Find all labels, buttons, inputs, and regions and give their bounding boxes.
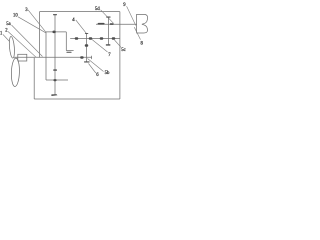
leader for label 9 [127,6,136,25]
leader for label 1 [3,35,10,42]
leader for label 2 [8,32,36,58]
svg-text:4: 4 [72,18,75,23]
step shaft vertical [65,32,67,51]
leader for label 4 [76,20,86,33]
svg-text:10: 10 [13,14,18,19]
leader for label 5b [88,59,104,72]
svg-text:9: 9 [123,3,126,8]
bevel gear left on output shaft [98,23,105,25]
svg-text:7: 7 [108,53,111,58]
svg-text:8: 8 [141,42,144,47]
shaft V1 top cap [85,32,88,35]
svg-text:1: 1 [0,31,3,36]
fan shaft horizontal [14,56,92,58]
shaft B bottom bevel gear [51,94,57,96]
leader for label 8 [134,27,140,39]
cross shaft at y32 [46,31,66,33]
svg-text:3: 3 [25,8,28,13]
housing box right edge [119,12,121,99]
gear blob on shaft V1 [85,44,88,47]
gear train horizontal shaft [70,38,120,40]
fan shaft end tick [91,56,93,59]
gear blob g2 on gear train shaft [89,37,92,40]
gear on shaft B at y32 [53,31,56,33]
leader for label 5a [12,25,43,57]
leader for label 7 [92,40,108,53]
shaft B top cap bearing [53,14,57,15]
fan lower blade 1 [11,58,20,87]
gear blob g3 on gear train shaft [100,37,103,40]
housing box top edge [40,11,120,13]
svg-text:2: 2 [5,29,8,34]
bevel shaft V1 [86,33,88,61]
leader for label 5c [115,40,122,47]
lower junction shaft horizontal [46,79,68,81]
shaft V2 bottom bar [106,44,111,45]
svg-text:5d: 5d [95,7,100,12]
vertical shaft A [45,32,47,80]
fan upper blade 1 [9,36,16,58]
leader for label 3 [28,10,46,33]
bevel shaft V2 [107,17,109,45]
shaft V1 bottom bar [84,61,90,62]
leader for label 6 [89,64,96,74]
output shaft to roller [96,23,137,25]
leader for label 10 [18,17,46,33]
housing box left lower edge [33,58,35,99]
step shaft horizontal [66,50,73,52]
gear bar on shaft B at y70 [53,69,57,70]
housing box bottom edge [34,98,120,100]
svg-text:5b: 5b [105,71,110,76]
roller 9 body [137,14,148,33]
hub coupling 2 rectangle [18,54,27,61]
bevel gear right on output shaft [110,23,114,25]
housing box left upper edge [39,12,41,58]
gear blob on fan shaft [80,56,83,59]
vertical shaft B [54,15,56,95]
bevel gear under step shaft [66,52,71,53]
leader for label 5d [101,10,114,23]
gear blob g1 on gear train shaft [75,37,78,40]
shaft V2 top cap [106,17,110,18]
junction gear at (55,80) [53,79,56,81]
svg-text:5a: 5a [6,22,11,27]
gear blob g4 on gear train shaft [112,37,115,40]
svg-text:6: 6 [96,73,99,78]
svg-text:5c: 5c [121,48,125,53]
